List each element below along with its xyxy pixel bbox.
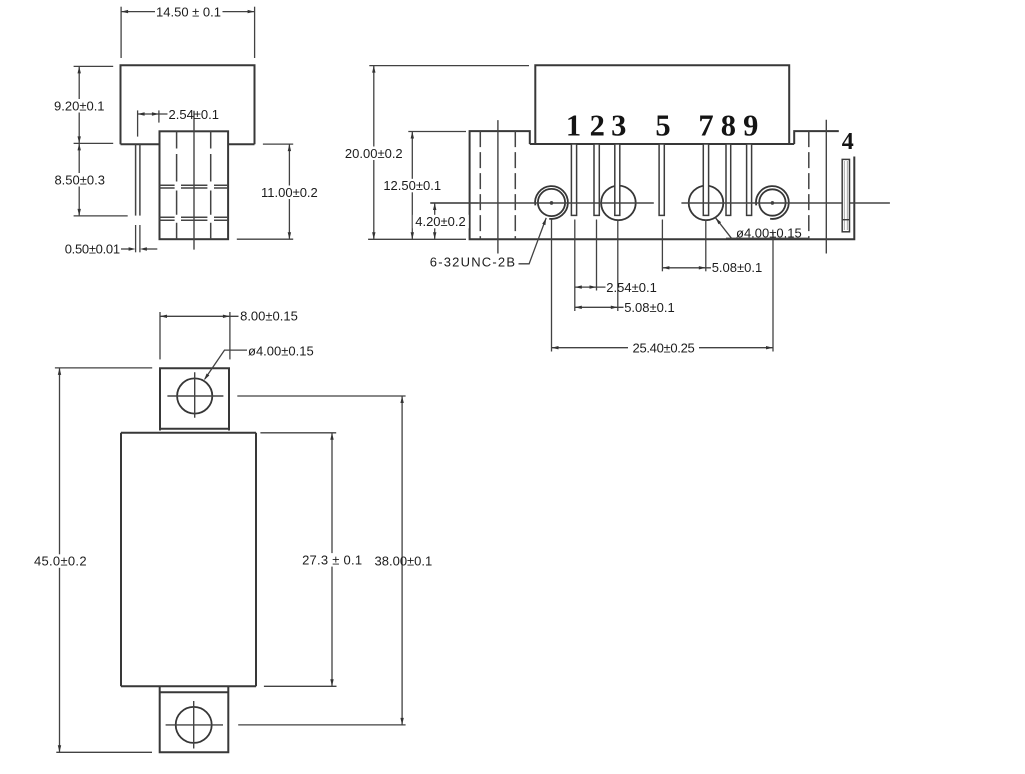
svg-text:8: 8 bbox=[721, 109, 736, 143]
dim 12.50 ext top bbox=[408, 131, 466, 133]
top hole crosshair bbox=[167, 372, 223, 417]
dim 14.50 ext line left bbox=[120, 7, 122, 58]
vertical centerline left hole bbox=[497, 120, 499, 253]
svg-text:1: 1 bbox=[566, 109, 581, 143]
dim 0.50 ext left bbox=[135, 225, 137, 252]
thread circle D outer arc bbox=[756, 186, 789, 219]
block hidden vertical line right bbox=[210, 131, 212, 239]
dim 0.50 leader right bbox=[147, 248, 158, 250]
arrow leader dia4 v2 bbox=[716, 218, 722, 225]
arrow 8.50 down bbox=[78, 209, 81, 216]
svg-text:3: 3 bbox=[611, 109, 626, 143]
hidden hole line left-a bbox=[479, 131, 481, 239]
cap bottom edge bbox=[530, 143, 794, 145]
label 45.0 (white bg) bbox=[32, 554, 89, 568]
arrow 20.00 up bbox=[372, 66, 375, 73]
arrow 5.08 lower right bbox=[611, 306, 618, 309]
dim 11.00 ext bottom bbox=[237, 238, 293, 240]
pin 8 body bbox=[726, 144, 731, 215]
hole circle C bbox=[689, 186, 724, 221]
svg-text:45.0±0.2: 45.0±0.2 bbox=[34, 554, 87, 569]
arrow 8.00 left bbox=[160, 315, 167, 318]
arrow 45.0 up bbox=[58, 368, 61, 375]
svg-text:4.20±0.2: 4.20±0.2 bbox=[415, 214, 466, 229]
svg-text:2.54±0.1: 2.54±0.1 bbox=[606, 280, 657, 295]
arrow 2.54 v2 right bbox=[590, 285, 597, 288]
ext right of bottom hole center bbox=[238, 724, 405, 726]
ext below pin 5 bbox=[661, 220, 663, 272]
arrow 8.50 up bbox=[78, 143, 81, 150]
dim 2.54 line bbox=[138, 113, 168, 115]
arrow 9.20 up bbox=[78, 66, 81, 73]
dim 2.54 line v2 bbox=[575, 286, 606, 288]
hole circle B bbox=[601, 186, 636, 221]
arrow 38.00 down bbox=[400, 718, 403, 725]
arrow 27.3 up bbox=[330, 433, 333, 440]
dim 20.00 ext top bbox=[369, 65, 529, 67]
svg-text:ø4.00±0.15: ø4.00±0.15 bbox=[248, 344, 314, 359]
arrow 9.20 down bbox=[78, 136, 81, 143]
center dot A bbox=[550, 201, 554, 205]
left pin line a bbox=[135, 144, 137, 215]
pin 5 body bbox=[659, 144, 664, 215]
dim 5.08 upper line bbox=[662, 267, 711, 269]
vertical centerline right hole bbox=[825, 120, 827, 254]
svg-text:12.50±0.1: 12.50±0.1 bbox=[383, 178, 441, 193]
bottom tab top line bbox=[160, 691, 229, 693]
svg-text:8.00±0.15: 8.00±0.15 bbox=[240, 309, 298, 324]
bottom hole crosshair bbox=[166, 701, 223, 749]
dim 14.50 ext line right bbox=[254, 7, 256, 58]
arrow 25.40 right bbox=[766, 346, 773, 349]
arrow 2.54 left bbox=[138, 112, 145, 115]
arrow 2.54 v2 left bbox=[575, 285, 582, 288]
dim 2.54 ext left bbox=[137, 110, 139, 136]
center dot D bbox=[771, 201, 775, 205]
leader dia 4.00 v3 bbox=[205, 350, 247, 379]
bottom mounting tab bbox=[160, 687, 229, 753]
thread circle A inner bbox=[538, 189, 565, 216]
dim 8.00 ext right bbox=[229, 312, 231, 359]
arrow 38.00 up bbox=[400, 396, 403, 403]
left pin line b bbox=[139, 144, 141, 215]
svg-text:2: 2 bbox=[590, 109, 605, 143]
arrow 14.50 right bbox=[248, 10, 255, 13]
dim 5.08 lower line bbox=[575, 306, 624, 308]
dim 8.50 ext bottom bbox=[74, 215, 128, 217]
main body top edge bbox=[121, 432, 256, 434]
dim 0.50 ext right bbox=[139, 225, 141, 252]
cap outline V2 bbox=[535, 65, 789, 144]
block horizontal band 1 lower bbox=[160, 187, 229, 189]
arrow 20.00 down bbox=[372, 232, 375, 239]
dim 2.54 ext right bbox=[158, 110, 160, 122]
svg-text:5.08±0.1: 5.08±0.1 bbox=[712, 260, 763, 275]
thread circle D inner bbox=[759, 189, 785, 215]
arrow 4.20 up bbox=[433, 203, 436, 210]
svg-text:27.3 ± 0.1: 27.3 ± 0.1 bbox=[302, 553, 362, 568]
base bottom ext line left bbox=[368, 238, 466, 240]
svg-text:7: 7 bbox=[698, 109, 713, 143]
pin 7 body bbox=[703, 144, 708, 215]
dim 0.50 leader left bbox=[121, 248, 129, 250]
label 12.50 (white bg) bbox=[381, 179, 443, 193]
arrow 0.50 left-pointing bbox=[140, 247, 147, 250]
dim 9.20 ext top bbox=[74, 65, 114, 67]
arrow 12.50 up bbox=[411, 132, 414, 139]
svg-text:9: 9 bbox=[743, 109, 758, 143]
arrow 0.50 right-pointing bbox=[129, 247, 136, 250]
svg-text:2.54±0.1: 2.54±0.1 bbox=[169, 107, 220, 122]
hidden hole line left-b bbox=[514, 131, 516, 239]
svg-text:25.40±0.25: 25.40±0.25 bbox=[633, 340, 695, 355]
pin 4 tab side view bbox=[842, 159, 849, 231]
pin block outline bbox=[160, 131, 229, 239]
svg-text:9.20±0.1: 9.20±0.1 bbox=[54, 99, 105, 114]
pin 3 body bbox=[615, 144, 620, 215]
dim 4.20 line bbox=[434, 203, 436, 239]
dim 14.50 line bbox=[121, 11, 255, 13]
thread circle A outer arc bbox=[535, 186, 568, 219]
horizontal centerline through holes bbox=[431, 202, 890, 204]
dim 25.40 line bbox=[552, 347, 774, 349]
arrow 5.08 upper right bbox=[699, 266, 706, 269]
pin 9 body bbox=[747, 144, 752, 215]
body outline V1 bbox=[121, 65, 255, 144]
arrow 4.20 down bbox=[433, 232, 436, 239]
arrow 11.00 up bbox=[288, 144, 291, 151]
dim 12.50 line bbox=[411, 132, 413, 240]
hidden hole line right bbox=[808, 131, 810, 239]
top tab bottom line bbox=[160, 428, 229, 430]
ext below pin 7 bbox=[705, 220, 707, 272]
svg-text:5.08±0.1: 5.08±0.1 bbox=[624, 300, 675, 315]
top hole circle bbox=[177, 378, 212, 413]
body bottom edge left segment bbox=[121, 143, 160, 145]
svg-text:4: 4 bbox=[842, 129, 854, 155]
label 11.00 (white bg) bbox=[259, 186, 320, 200]
label 4.20 (white bg) bbox=[413, 215, 469, 229]
dim 38.00 line bbox=[401, 396, 403, 725]
svg-text:8.50±0.3: 8.50±0.3 bbox=[54, 173, 105, 188]
label 20.00 (white bg) bbox=[343, 147, 405, 161]
label 27.3 (white bg) bbox=[300, 553, 364, 567]
label 9.20 (white bg) bbox=[53, 99, 107, 113]
arrow 5.08 upper left bbox=[662, 266, 669, 269]
top mounting tab bbox=[160, 368, 229, 430]
dim 27.3 ext bottom bbox=[264, 685, 337, 687]
body bottom edge right segment bbox=[228, 143, 254, 145]
dim 8.00 line bbox=[160, 315, 239, 317]
ext below pin 3 bbox=[617, 220, 619, 312]
dim 9.20 ext bottom bbox=[74, 142, 114, 144]
ext right of top hole center bbox=[237, 395, 405, 397]
label 8.50 (white bg) bbox=[52, 173, 109, 187]
svg-text:20.00±0.2: 20.00±0.2 bbox=[345, 146, 403, 161]
ext below circle D center bbox=[772, 233, 774, 352]
leader diameter 4.00 v2 bbox=[716, 218, 809, 239]
ext below pin 1 bbox=[574, 220, 576, 312]
ext below circle A center bbox=[551, 220, 553, 352]
arrow 11.00 down bbox=[288, 232, 291, 239]
svg-text:11.00±0.2: 11.00±0.2 bbox=[261, 185, 318, 200]
bottom hole circle bbox=[176, 707, 212, 743]
base outline with corner steps bbox=[470, 131, 855, 239]
arrow leader dia4 v3 bbox=[204, 374, 209, 381]
dim 20.00 line bbox=[373, 66, 375, 240]
dim 8.00 ext left bbox=[159, 312, 161, 359]
leader 6-32UNC-2B bbox=[519, 218, 547, 264]
block hidden vertical line left bbox=[176, 131, 178, 239]
arrow 14.50 left bbox=[121, 10, 128, 13]
arrow 27.3 down bbox=[330, 679, 333, 686]
dim 27.3 line bbox=[331, 433, 333, 687]
dim 8.50 line bbox=[78, 143, 80, 216]
ext below pin 2 bbox=[596, 220, 598, 291]
pin 1 body bbox=[571, 144, 576, 215]
svg-text:14.50 ± 0.1: 14.50 ± 0.1 bbox=[156, 4, 221, 19]
block horizontal band 2 upper bbox=[160, 216, 229, 218]
arrow 8.00 right bbox=[223, 315, 230, 318]
dim 4.20 ext top bbox=[430, 202, 478, 204]
svg-text:6-32UNC-2B: 6-32UNC-2B bbox=[430, 255, 516, 270]
svg-text:38.00±0.1: 38.00±0.1 bbox=[375, 554, 433, 569]
arrow 2.54 right bbox=[152, 112, 159, 115]
svg-text:5: 5 bbox=[655, 109, 670, 143]
dim 27.3 ext top bbox=[260, 432, 336, 434]
dim 11.00 line bbox=[288, 144, 290, 239]
arrow leader 6-32 bbox=[542, 218, 546, 225]
dim 45.0 ext top bbox=[55, 367, 152, 369]
main body sides bbox=[121, 433, 256, 687]
dim 45.0 line bbox=[59, 368, 61, 752]
dim 9.20 line bbox=[78, 66, 80, 143]
pin 4 white backdrop bbox=[839, 127, 857, 157]
arrow 25.40 left bbox=[552, 346, 559, 349]
block horizontal band 2 lower bbox=[160, 219, 229, 221]
block horizontal band 1 upper bbox=[160, 184, 229, 186]
arrow 45.0 down bbox=[58, 745, 61, 752]
svg-text:0.50±0.01: 0.50±0.01 bbox=[65, 242, 120, 257]
arrow 12.50 down bbox=[411, 232, 414, 239]
centerline through block bbox=[193, 111, 195, 250]
dim 11.00 ext top bbox=[263, 143, 293, 145]
svg-text:ø4.00±0.15: ø4.00±0.15 bbox=[736, 225, 802, 240]
arrow 5.08 lower left bbox=[575, 306, 582, 309]
dim 45.0 ext bottom bbox=[56, 751, 152, 753]
main body bottom edge bbox=[121, 685, 256, 687]
pin 2 body bbox=[594, 144, 599, 215]
